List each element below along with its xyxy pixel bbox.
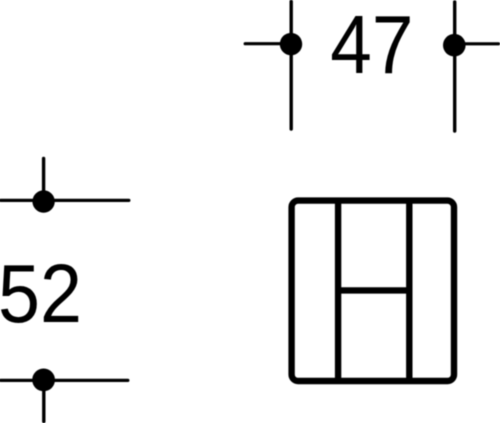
wire left upper horizontal line xyxy=(1,199,129,202)
wire horizontal divider xyxy=(338,287,409,293)
component outline rounded rectangle xyxy=(292,201,454,381)
wire top-left extension line xyxy=(290,2,293,130)
wire vertical divider 1 xyxy=(335,200,341,382)
svg-text:52: 52 xyxy=(0,247,82,340)
wire top-right tail xyxy=(454,42,498,45)
node left upper dimension dot xyxy=(32,190,54,212)
wire left upper tick xyxy=(42,159,45,202)
wire top-right extension line xyxy=(453,2,456,131)
node top-right dimension dot xyxy=(443,34,466,57)
wire vertical divider 2 xyxy=(406,200,412,382)
wire left lower tick xyxy=(42,380,45,422)
node top-left dimension dot xyxy=(280,33,302,55)
wire top-left tail xyxy=(245,42,291,45)
svg-text:47: 47 xyxy=(330,0,413,91)
wire left lower horizontal line xyxy=(1,379,128,382)
node left lower dimension dot xyxy=(32,369,55,392)
